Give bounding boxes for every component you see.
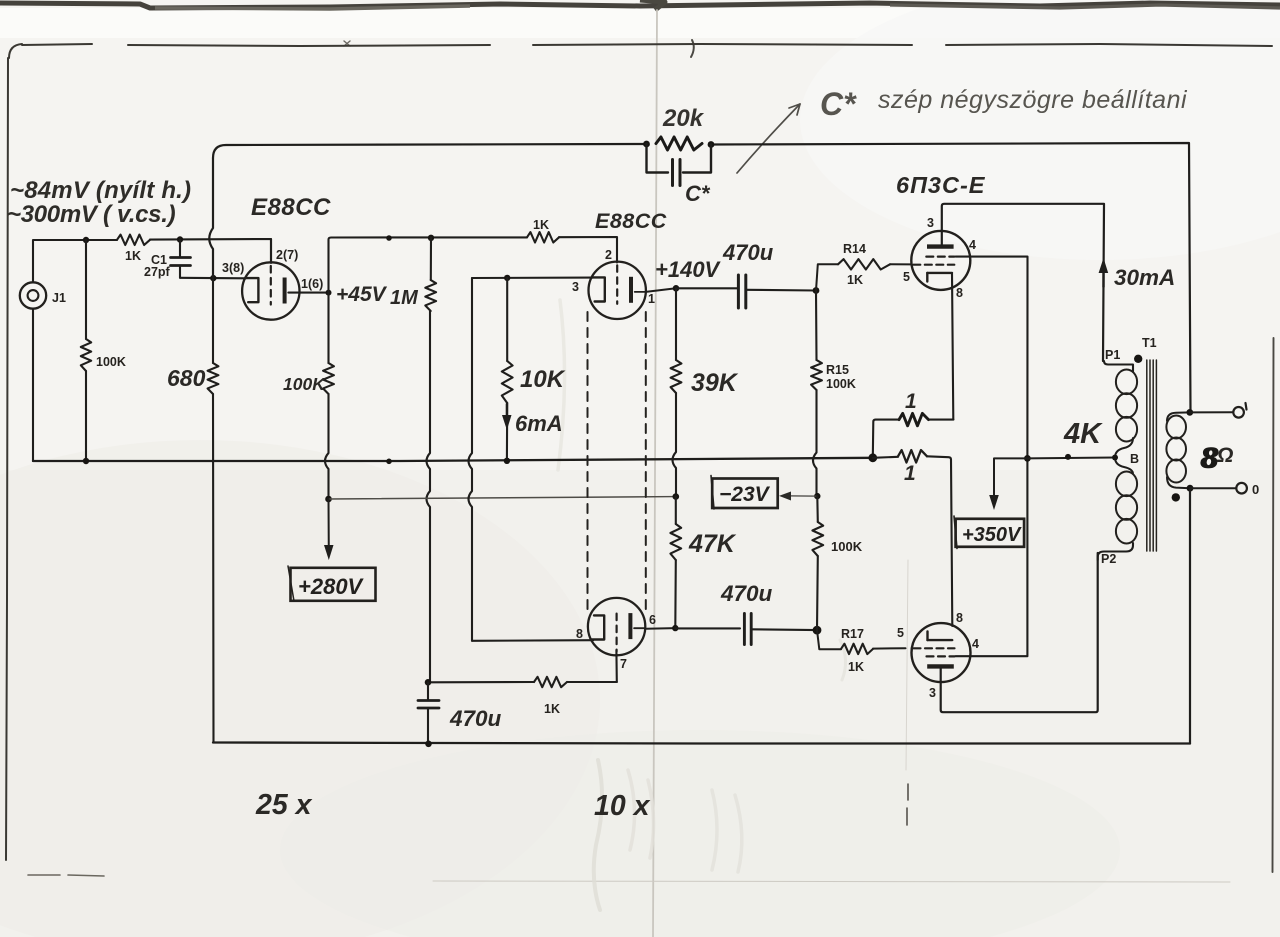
resistor 100K lower bias — [816, 496, 819, 522]
bottom crease dash-dot — [28, 875, 104, 876]
svg-text:J1: J1 — [52, 291, 66, 305]
svg-text:R17: R17 — [841, 627, 864, 641]
wire V3b anode to P2 — [941, 553, 1098, 712]
svg-text:+140V: +140V — [655, 257, 722, 282]
svg-text:8: 8 — [956, 611, 963, 625]
svg-text:1K: 1K — [848, 660, 864, 674]
wire J1 top to input node — [33, 240, 117, 283]
svg-text:R14: R14 — [843, 242, 866, 256]
svg-text:680: 680 — [167, 365, 206, 391]
svg-text:6: 6 — [649, 613, 656, 627]
tube V3b 6P3S lower — [912, 623, 971, 682]
svg-text:T1: T1 — [1142, 336, 1157, 350]
terminal o 0 output — [1190, 487, 1236, 489]
arrow to +280V label — [328, 499, 330, 553]
svg-text:E88CC: E88CC — [595, 209, 667, 233]
wire V3a anode to P1 — [942, 204, 1104, 361]
wire 39K to +280 rail with hop — [673, 393, 677, 497]
label box -23V with arrow — [789, 495, 817, 497]
svg-text:100K: 100K — [831, 539, 863, 554]
wire C1 bottom to V1 cathode — [180, 277, 246, 280]
tube V2a E88CC splitter upper — [589, 262, 646, 319]
capacitor C* parallel with 20k — [647, 144, 669, 173]
svg-text:1M: 1M — [390, 287, 419, 309]
svg-text:~84mV (nyílt h.): ~84mV (nyílt h.) — [10, 177, 191, 204]
resistor 47K V2b load — [675, 497, 677, 524]
wire 680 to box bottom — [212, 394, 215, 743]
svg-text:B: B — [1130, 452, 1139, 466]
svg-text:4K: 4K — [1063, 418, 1103, 450]
page center fold crease — [653, 10, 657, 937]
faint ghost marks — [594, 760, 602, 910]
svg-text:P2: P2 — [1101, 552, 1116, 566]
wire R15 to -23V node with hop — [813, 390, 817, 496]
polarity dot secondary — [1172, 493, 1180, 501]
node +350V junction — [1024, 455, 1031, 462]
node input 100K — [83, 237, 89, 243]
svg-text:3: 3 — [929, 686, 936, 700]
svg-text:3: 3 — [572, 280, 579, 294]
resistor R14 1K grid stopper upper — [838, 259, 890, 269]
resistor R15 100K upper — [815, 291, 818, 361]
transformer primary lower winding — [1116, 472, 1137, 497]
wire common cathode down to V2b with hops — [469, 278, 473, 641]
svg-text:1: 1 — [648, 292, 655, 306]
tube V1 E88CC first triode — [242, 262, 299, 319]
svg-text:1K: 1K — [847, 273, 863, 287]
svg-text:szép négyszögre beállítani: szép négyszögre beállítani — [878, 86, 1188, 114]
wire V3b screen to +350 node — [956, 458, 1028, 656]
tube V2b E88CC splitter lower — [588, 598, 645, 655]
svg-text:470u: 470u — [449, 706, 502, 731]
wire node jog to R17 — [817, 630, 841, 649]
svg-text:1: 1 — [905, 390, 917, 413]
wire J1 bottom to ground bus — [32, 309, 34, 461]
svg-text:6mA: 6mA — [515, 411, 563, 436]
capacitor 470u grid bypass — [427, 682, 429, 699]
svg-text:+350V: +350V — [962, 524, 1022, 546]
svg-text:8: 8 — [576, 627, 583, 641]
wire feedback top line left — [213, 144, 646, 158]
svg-text:5: 5 — [897, 626, 904, 640]
svg-text:1: 1 — [904, 462, 916, 485]
polarity dot primary — [1134, 355, 1142, 363]
svg-text:27pf: 27pf — [144, 265, 171, 279]
svg-text:−23V: −23V — [719, 483, 771, 506]
wire node up to R14 — [816, 264, 838, 290]
svg-text:8: 8 — [956, 286, 963, 300]
label box +280V — [291, 568, 376, 601]
svg-text:100K: 100K — [96, 355, 126, 369]
node C1 top — [177, 236, 183, 242]
resistor 1K interstage — [527, 232, 559, 242]
transformer core laminations — [1146, 360, 1148, 551]
svg-text:5: 5 — [903, 270, 910, 284]
wire B tap line — [1027, 457, 1115, 460]
node cathode feedback junction — [210, 275, 216, 281]
wire V3a screen to +350 node — [956, 257, 1028, 459]
svg-text:3(8): 3(8) — [222, 261, 244, 275]
svg-text:6Π3C-E: 6Π3C-E — [896, 172, 986, 198]
resistor 10K common cathode tail — [506, 278, 508, 361]
transformer primary lead P1 — [1104, 361, 1133, 372]
resistor 1 ohm lower sense — [898, 450, 927, 462]
stray junction dot — [386, 235, 392, 241]
node secondary top feedback tap — [1186, 409, 1193, 416]
resistor R17 1K grid stopper lower — [841, 644, 873, 654]
fold tick marks bottom center — [907, 784, 908, 825]
svg-text:7: 7 — [620, 657, 627, 671]
svg-text:R15: R15 — [826, 363, 849, 377]
wire V3a cathode down to 1 ohm — [952, 274, 953, 420]
wire V2a anode to +140V node — [646, 288, 676, 292]
svg-text:4: 4 — [972, 637, 979, 651]
svg-text:3: 3 — [927, 216, 934, 230]
svg-text:2: 2 — [605, 248, 612, 262]
wire V1 anode node up and right to V2 grid — [329, 237, 528, 292]
tube envelope dashed link lines — [587, 312, 589, 612]
wire R17 to V3b grid — [873, 647, 906, 649]
svg-text:100K: 100K — [283, 374, 326, 394]
svg-text:470u: 470u — [722, 240, 774, 265]
wire 1M down to V2b grid node with hops — [430, 238, 432, 280]
wire V2a cathode run — [472, 277, 593, 279]
capacitor 470u lower coupling — [675, 627, 740, 629]
terminal o' output — [1190, 411, 1233, 413]
current arrow 6mA — [506, 404, 508, 424]
resistor 1K V2b grid stopper — [567, 681, 617, 683]
resistor 39K V2a load — [675, 288, 677, 360]
svg-text:C*: C* — [685, 181, 711, 206]
svg-text:30mA: 30mA — [1114, 265, 1175, 290]
svg-text:47K: 47K — [688, 530, 737, 558]
svg-text:+280V: +280V — [298, 574, 365, 599]
wire V1 grid lead — [270, 239, 272, 263]
svg-text:1(6): 1(6) — [301, 277, 323, 291]
resistor 1 ohm upper sense — [929, 419, 954, 421]
wire box left edge upper with hop over grid wire — [209, 158, 213, 278]
transformer primary upper winding — [1116, 370, 1137, 395]
wire 1K to grid corner — [150, 239, 271, 263]
ground bus line — [33, 458, 873, 461]
svg-text:2(7): 2(7) — [276, 248, 298, 262]
wire secondary bottom to box bottom — [1189, 488, 1191, 743]
wire V1 anode to node — [289, 292, 329, 294]
outer page border top dashes — [22, 44, 92, 45]
resistor 20k in feedback — [656, 137, 702, 150]
resistor 1K input series — [117, 235, 150, 245]
resistor 1M grid leak V2b — [425, 280, 436, 311]
wire V2b anode to node — [646, 627, 676, 630]
wire 1K to V2a grid — [559, 237, 617, 263]
outer page border left — [6, 44, 22, 860]
resistor 100K V1 anode load — [327, 293, 329, 363]
svg-text:20k: 20k — [662, 105, 705, 132]
wire feedback top line right — [711, 143, 1191, 412]
wire R14 to V3a grid — [890, 263, 911, 265]
svg-text:~300mV ( v.cs.): ~300mV ( v.cs.) — [7, 201, 176, 228]
node secondary bottom — [1187, 485, 1194, 492]
outer page border right — [1273, 338, 1274, 872]
svg-text:470u: 470u — [720, 581, 773, 606]
tube V3a 6P3S upper — [911, 231, 970, 290]
current arrow 30mA — [1102, 262, 1104, 287]
wire jog to B tap — [1115, 438, 1133, 474]
annotation arrow to C* — [737, 104, 800, 173]
resistor 100K input shunt — [85, 240, 87, 339]
node B center tap — [1112, 455, 1118, 461]
input jack J1 — [20, 282, 46, 308]
svg-text:1K: 1K — [125, 249, 141, 263]
svg-text:1K: 1K — [544, 702, 560, 716]
resistor 680 cathode — [208, 363, 219, 394]
wire +350V arrow — [994, 458, 1027, 503]
svg-text:39K: 39K — [691, 369, 739, 397]
svg-text:4: 4 — [969, 238, 976, 252]
wire 100K load to +280V rail with hop — [325, 394, 329, 499]
svg-text:P1: P1 — [1105, 348, 1120, 362]
svg-text:1K: 1K — [533, 218, 549, 232]
wire box edge cathode to 680 — [212, 278, 214, 363]
wire primary P2 lead — [1098, 543, 1133, 560]
wire V2b grid lead down — [615, 650, 617, 682]
svg-text:E88CC: E88CC — [251, 194, 331, 221]
svg-text:10 x: 10 x — [594, 790, 651, 822]
svg-text:Ω: Ω — [1216, 444, 1233, 467]
capacitor C1 27pf — [179, 240, 181, 257]
svg-text:C*: C* — [820, 86, 857, 122]
svg-text:100K: 100K — [826, 377, 856, 391]
torn paper top edge — [0, 3, 1280, 8]
wire box bottom ground return — [213, 743, 1190, 744]
wire +280V rail — [329, 497, 676, 499]
label box +350V — [956, 519, 1025, 547]
transformer secondary winding — [1167, 412, 1190, 421]
svg-text:25 x: 25 x — [255, 789, 313, 821]
small ink mark near top — [691, 40, 694, 57]
capacitor 470u upper coupling — [676, 287, 737, 289]
svg-text:0: 0 — [1252, 482, 1259, 497]
svg-text:10K: 10K — [520, 366, 566, 393]
svg-text:+45V: +45V — [336, 283, 388, 306]
node 1M top — [428, 235, 434, 241]
